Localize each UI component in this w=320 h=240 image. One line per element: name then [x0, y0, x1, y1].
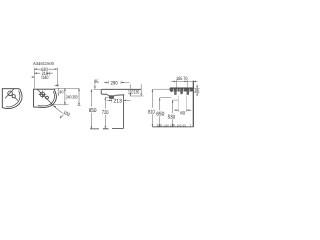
extension lines down to 80 dim [178, 96, 186, 109]
dimension 290 lines and arrows [104, 81, 130, 83]
basin section band with fittings [170, 88, 193, 94]
right dims [152, 80, 200, 127]
dimension 213 lines and arrows [107, 99, 131, 101]
dimension 95 arrow [94, 83, 96, 89]
svg-text:290: 290 [111, 81, 118, 87]
floor line [152, 126, 193, 128]
dimension 810 vertical line [151, 89, 153, 127]
dimension 140 top lines and arrow [41, 76, 43, 79]
side view dimension labels [89, 79, 140, 116]
plan drain hole [46, 96, 49, 99]
svg-text:95: 95 [94, 79, 99, 85]
floor line segments [90, 128, 123, 130]
svg-text:810: 810 [148, 109, 155, 115]
icon inner rim arc [6, 91, 20, 107]
faint ghost model-number text [33, 61, 55, 66]
dimension 215 lines and arrows [48, 72, 50, 76]
svg-text:130: 130 [134, 90, 140, 96]
svg-text:80: 80 [180, 111, 185, 116]
plan tap hole with crosshair [40, 92, 45, 97]
profile drain fitting [110, 96, 114, 98]
side profile view [90, 89, 141, 129]
basin front curve [170, 88, 172, 92]
svg-text:650: 650 [156, 112, 164, 118]
dimension 350 vertical line [77, 88, 80, 105]
svg-text:850: 850 [89, 108, 97, 114]
dimensioned corner-basin plan view [34, 89, 57, 107]
svg-text:70: 70 [183, 76, 187, 82]
dimension 720 vertical line [104, 97, 106, 129]
under-basin vertical line [122, 95, 124, 129]
icon tap hole [8, 91, 13, 96]
svg-text:140: 140 [42, 75, 48, 81]
side view dimensions [91, 81, 144, 129]
icon drain hole [12, 95, 15, 98]
dimension 80 lines and arrows [174, 109, 191, 111]
icon axis tail line [15, 98, 18, 101]
dimension 85 lines and arrows [194, 88, 200, 92]
wall line [192, 81, 194, 127]
rim extension line to 810 [152, 88, 170, 90]
svg-text:720: 720 [102, 110, 109, 116]
dimensions 165 and 70 lines and arrows [171, 80, 198, 82]
plan inner rim arc [38, 91, 54, 106]
plan basin outline [34, 89, 57, 107]
plan diagonal centerline [37, 89, 54, 106]
rim extension line left [93, 88, 101, 90]
installation side view [152, 81, 193, 127]
blurry supply dimension row near floor [157, 124, 190, 128]
extension line from basin top edge [55, 87, 79, 89]
dimension 430 lines and arrows [34, 68, 57, 89]
svg-text:85: 85 [195, 88, 200, 93]
svg-text:340: 340 [66, 95, 72, 100]
profile front and underside contour [101, 89, 124, 96]
dimension 103 leader arrows [53, 106, 63, 118]
svg-text:165: 165 [176, 76, 183, 82]
plan dimension labels [40, 67, 78, 118]
svg-text:350: 350 [72, 95, 78, 100]
svg-text:A34611500: A34611500 [33, 61, 55, 66]
extension line at basin bottom [50, 104, 69, 106]
installation view dimension labels [148, 76, 199, 121]
profile rim top line [102, 88, 142, 90]
dimension 850 vertical line [90, 89, 92, 129]
plan top dimensions [32, 68, 58, 89]
extension lines above basin [176, 83, 187, 87]
svg-text:150 1|50 150: 105 60: 150 1|50 150: 105 60 [158, 124, 187, 127]
dimension 650 vertical line [159, 98, 161, 127]
basin rim line at wall [170, 87, 193, 89]
svg-text:140: 140 [57, 90, 64, 95]
dimension 340 vertical line [64, 88, 66, 105]
small arrow and tick right of basin top [55, 84, 58, 86]
svg-text:213: 213 [114, 98, 122, 104]
dimension 140 vertical line [57, 88, 59, 95]
icon centerline slash [5, 89, 14, 99]
small corner-basin plan icon [2, 89, 22, 109]
icon basin outline [2, 89, 22, 109]
svg-text:530: 530 [168, 115, 176, 121]
dimensions 110 and 130 vertical lines [130, 95, 144, 97]
dimension 530 vertical line [172, 100, 174, 127]
plan right dimensions [50, 88, 81, 105]
